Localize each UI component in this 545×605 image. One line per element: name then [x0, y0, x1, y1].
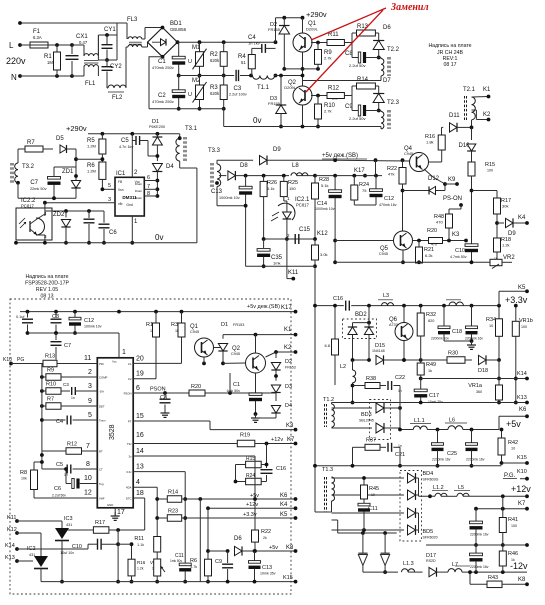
svg-text:K17: K17 [354, 168, 365, 174]
svg-text:1.8k: 1.8k [426, 140, 434, 145]
svg-text:2.2uf 50v: 2.2uf 50v [349, 116, 365, 121]
svg-text:10mk 35v: 10mk 35v [260, 572, 276, 576]
wire Q1 emitter node [302, 52, 304, 86]
svg-text:5.1k: 5.1k [321, 183, 329, 188]
svg-text:2200mk 10v: 2200mk 10v [431, 337, 449, 341]
svg-text:K2: K2 [284, 345, 292, 351]
svg-text:K3: K3 [286, 423, 294, 429]
svg-text:D4: D4 [285, 403, 292, 409]
svg-text:R11: R11 [134, 536, 144, 542]
svg-text:R37: R37 [366, 438, 376, 444]
svg-text:620k: 620k [210, 58, 220, 63]
svg-text:K3: K3 [452, 232, 460, 238]
svg-text:Vcc: Vcc [112, 360, 117, 364]
wire aux gnd1 [18, 197, 76, 199]
svg-text:R16: R16 [137, 560, 146, 565]
svg-text:C2: C2 [128, 377, 132, 381]
svg-text:+5v деж.(SB): +5v деж.(SB) [322, 153, 358, 159]
svg-text:620k: 620k [210, 91, 220, 96]
node L top wire [20, 22, 127, 24]
svg-text:FR153: FR153 [285, 366, 296, 370]
svg-text:FL3: FL3 [127, 17, 138, 23]
svg-text:C12: C12 [384, 196, 394, 202]
svg-text:R1: R1 [146, 322, 153, 328]
svg-text:1000mk 10v: 1000mk 10v [219, 196, 240, 200]
module dashed box FSP3528 [10, 299, 291, 594]
svg-text:R14: R14 [357, 77, 369, 83]
svg-text:IC3: IC3 [64, 516, 73, 522]
svg-text:CT: CT [99, 468, 103, 472]
svg-text:C13: C13 [211, 189, 223, 195]
svg-text:K15: K15 [517, 455, 527, 461]
svg-text:3528: 3528 [109, 424, 116, 440]
svg-text:Заменил: Заменил [390, 2, 429, 13]
svg-text:R38: R38 [366, 376, 376, 382]
svg-text:Надпись на плате: Надпись на плате [428, 43, 471, 49]
svg-text:K1: K1 [284, 327, 292, 333]
svg-text:2: 2 [88, 369, 92, 376]
wire fb bottom [246, 265, 315, 267]
wire module bottom rail [41, 581, 296, 583]
svg-text:DET: DET [99, 405, 105, 409]
wire mid to half-bridge [276, 75, 303, 77]
wire vcc sub [28, 332, 120, 334]
svg-text:PS-ON: PS-ON [443, 196, 462, 202]
svg-text:C3: C3 [234, 86, 242, 92]
svg-text:1n 1kv: 1n 1kv [248, 41, 260, 46]
svg-text:C6: C6 [54, 486, 61, 492]
svg-text:C945: C945 [190, 330, 199, 334]
svg-text:C16: C16 [276, 466, 286, 472]
svg-text:+5v деж.(SB): +5v деж.(SB) [247, 304, 280, 310]
svg-text:R30: R30 [448, 351, 458, 357]
svg-text:C7: C7 [64, 343, 71, 349]
svg-text:K6: K6 [280, 493, 288, 499]
svg-text:431: 431 [66, 523, 72, 527]
svg-text:C945: C945 [231, 352, 240, 356]
wire +3.3 rail [351, 305, 499, 307]
svg-text:2200mk 16v: 2200mk 16v [466, 458, 485, 462]
svg-text:08 17: 08 17 [444, 62, 457, 68]
svg-text:K5: K5 [518, 285, 526, 291]
wire mid bus [179, 75, 235, 77]
svg-text:Gnd: Gnd [126, 203, 133, 207]
wire Q5 base right [413, 240, 429, 242]
svg-text:150: 150 [289, 186, 296, 191]
pin 4 wire [133, 486, 157, 488]
svg-text:D3: D3 [285, 384, 292, 390]
svg-text:16: 16 [136, 432, 144, 439]
svg-text:K4: K4 [518, 215, 526, 221]
svg-text:Drain: Drain [135, 189, 143, 193]
svg-text:+3.3v: +3.3v [243, 512, 257, 518]
svg-text:47k: 47k [388, 172, 394, 177]
svg-text:C8: C8 [160, 395, 167, 401]
svg-text:R23: R23 [168, 509, 178, 515]
svg-text:K11: K11 [7, 515, 16, 521]
svg-text:+12v: +12v [246, 502, 258, 508]
svg-text:1N4148: 1N4148 [372, 349, 385, 353]
svg-text:C17: C17 [429, 393, 439, 399]
svg-text:T2.2: T2.2 [387, 47, 400, 53]
svg-text:+12v: +12v [271, 437, 283, 443]
svg-text:FL1: FL1 [85, 81, 96, 87]
svg-text:K15: K15 [283, 575, 293, 581]
svg-text:2200mk 16v: 2200mk 16v [470, 565, 489, 569]
svg-text:L3: L3 [383, 293, 389, 299]
svg-text:Надпись на плате: Надпись на плате [25, 274, 68, 280]
svg-text:Drain: Drain [135, 182, 143, 186]
svg-text:K13: K13 [5, 555, 15, 561]
wire HV+ bus [176, 40, 180, 44]
svg-text:R22: R22 [261, 529, 271, 535]
svg-text:1.1k: 1.1k [137, 543, 144, 547]
svg-text:RS2D: RS2D [426, 559, 436, 563]
svg-text:Vsn: Vsn [118, 188, 124, 192]
svg-text:R15: R15 [485, 162, 495, 168]
svg-text:CY1: CY1 [104, 27, 116, 33]
svg-text:D209L: D209L [306, 27, 319, 32]
svg-text:C22: C22 [395, 375, 405, 381]
svg-text:FR155: FR155 [268, 27, 281, 32]
svg-text:D11: D11 [449, 113, 460, 119]
svg-text:10: 10 [511, 447, 515, 451]
svg-text:2200mk 16v: 2200mk 16v [470, 533, 489, 537]
svg-text:4: 4 [136, 479, 140, 486]
wire minus12 diode pair [338, 532, 397, 534]
svg-text:2.2uf 50v: 2.2uf 50v [349, 63, 365, 68]
svg-text:D4: D4 [166, 164, 174, 170]
svg-text:U: U [188, 92, 192, 98]
svg-text:4.7k: 4.7k [190, 565, 197, 569]
wire module left rail [41, 364, 43, 470]
svg-text:0.1uf: 0.1uf [16, 315, 25, 319]
svg-text:Tram: Tram [99, 419, 106, 423]
svg-text:20: 20 [136, 356, 144, 363]
svg-text:K11: K11 [288, 270, 299, 276]
svg-text:C16: C16 [333, 296, 343, 302]
svg-text:30k: 30k [502, 204, 508, 209]
svg-text:VR2: VR2 [503, 255, 515, 261]
svg-text:K12: K12 [317, 231, 328, 237]
svg-text:K13: K13 [517, 395, 527, 401]
svg-text:D8: D8 [240, 163, 248, 169]
svg-text:K4: K4 [280, 502, 288, 508]
svg-text:R13: R13 [45, 354, 55, 360]
svg-text:L1.1: L1.1 [414, 418, 425, 424]
svg-text:10: 10 [489, 324, 493, 328]
wire CY right [116, 23, 118, 60]
svg-text:T3.3: T3.3 [208, 148, 221, 154]
wire module vcc rail [20, 311, 296, 313]
svg-text:3: 3 [108, 197, 111, 203]
svg-text:R32: R32 [426, 312, 436, 318]
svg-text:4.7n 1kv: 4.7n 1kv [119, 145, 133, 149]
svg-text:12: 12 [84, 490, 92, 497]
wire R5 junction [76, 158, 102, 160]
svg-text:3.0k: 3.0k [320, 252, 328, 257]
capacitor aux Ca [88, 211, 90, 218]
svg-text:D5: D5 [56, 136, 64, 142]
svg-text:PC817: PC817 [296, 203, 309, 208]
wire BD1 minus [149, 57, 163, 109]
svg-text:3.3v: 3.3v [126, 470, 132, 474]
svg-text:C1: C1 [233, 382, 240, 388]
svg-text:T1.3: T1.3 [322, 467, 333, 473]
svg-text:K17: K17 [281, 305, 292, 311]
wire pin3 node [45, 210, 104, 212]
svg-text:D6: D6 [383, 25, 391, 31]
svg-text:T2.3: T2.3 [387, 100, 400, 106]
svg-text:PG: PG [17, 357, 24, 363]
svg-text:PID: PID [99, 362, 104, 366]
svg-text:D2: D2 [285, 359, 292, 365]
svg-text:C10: C10 [455, 248, 465, 254]
svg-text:R42: R42 [508, 440, 518, 446]
svg-text:GBU856: GBU856 [170, 27, 187, 32]
svg-text:R14: R14 [168, 490, 178, 496]
svg-text:R6: R6 [190, 558, 197, 564]
svg-text:C3: C3 [63, 382, 69, 387]
svg-text:FL2: FL2 [112, 95, 123, 101]
svg-text:51: 51 [241, 60, 246, 65]
svg-text:K5: K5 [280, 512, 288, 518]
svg-text:4DA: 4DA [126, 486, 132, 490]
svg-text:2200mk 16v: 2200mk 16v [465, 337, 483, 341]
svg-text:PT: PT [128, 420, 132, 424]
svg-text:19: 19 [136, 371, 144, 378]
svg-text:K2: K2 [483, 112, 491, 118]
svg-text:13: 13 [136, 464, 144, 471]
svg-text:-12v: -12v [510, 561, 528, 571]
svg-text:6.2k: 6.2k [425, 253, 433, 258]
svg-text:K6: K6 [519, 407, 527, 413]
svg-text:R3: R3 [171, 322, 178, 328]
svg-text:R8: R8 [20, 470, 27, 476]
svg-text:5: 5 [88, 412, 92, 419]
pin 19 wire [133, 378, 156, 380]
svg-text:D9: D9 [273, 147, 281, 153]
pin 20 wire [133, 362, 181, 364]
wire minus12 line [363, 571, 398, 573]
svg-text:11: 11 [84, 355, 91, 362]
svg-text:0.47: 0.47 [79, 40, 88, 45]
svg-text:VR1a: VR1a [468, 383, 483, 389]
svg-text:1.2M: 1.2M [87, 144, 96, 149]
svg-text:K1: K1 [483, 87, 491, 93]
svg-text:7: 7 [86, 443, 90, 450]
svg-text:PSON: PSON [124, 392, 132, 396]
svg-text:1: 1 [122, 349, 126, 356]
wire long feedback vertical [314, 266, 316, 512]
svg-text:FB: FB [118, 180, 122, 184]
svg-text:R7: R7 [27, 140, 35, 146]
svg-text:K14: K14 [517, 371, 527, 377]
svg-text:C25: C25 [447, 451, 457, 457]
svg-text:75: 75 [362, 188, 367, 193]
svg-text:470mk 16v: 470mk 16v [379, 203, 397, 207]
svg-text:14: 14 [136, 448, 144, 455]
svg-text:SFR6020: SFR6020 [423, 536, 438, 540]
svg-text:L8: L8 [292, 163, 299, 169]
svg-text:R17: R17 [95, 520, 105, 526]
svg-text:R11: R11 [328, 32, 339, 38]
svg-text:100: 100 [521, 325, 527, 329]
svg-text:RT: RT [99, 450, 103, 454]
wire +5vSB rail [335, 159, 409, 162]
diode D14 down [381, 555, 390, 566]
terminal K5 right [498, 291, 500, 305]
IC FSP3528 [97, 358, 133, 508]
svg-text:0v: 0v [253, 116, 261, 125]
svg-text:9: 9 [88, 398, 92, 405]
svg-text:BD4: BD4 [423, 471, 434, 477]
svg-text:1k: 1k [511, 558, 515, 562]
red annotation line to Q1 [311, 8, 386, 40]
wire C14 R24 C12 node [335, 175, 382, 177]
svg-text:1n: 1n [71, 396, 75, 400]
svg-text:100mk 10v: 100mk 10v [84, 325, 102, 329]
svg-text:C18: C18 [452, 329, 462, 335]
svg-text:PSON: PSON [150, 387, 166, 393]
svg-text:1mk: 1mk [273, 261, 281, 266]
svg-text:C13: C13 [262, 565, 272, 571]
svg-text:2.2uf 50v: 2.2uf 50v [52, 494, 66, 498]
svg-text:820: 820 [428, 319, 434, 323]
svg-text:GND: GND [107, 503, 113, 507]
svg-text:2k: 2k [263, 536, 267, 540]
svg-text:1.2M: 1.2M [87, 169, 96, 174]
wire q2 base link [229, 373, 231, 393]
svg-text:470mk 250v: 470mk 250v [152, 99, 174, 104]
svg-text:BD2: BD2 [355, 312, 367, 318]
svg-text:220v: 220v [6, 56, 26, 66]
svg-text:P6KE200: P6KE200 [149, 125, 165, 129]
svg-text:DTC: DTC [126, 497, 132, 501]
svg-text:K7: K7 [287, 437, 295, 443]
svg-text:R7: R7 [47, 397, 54, 403]
pin 14 wire [133, 455, 255, 457]
svg-text:+5v: +5v [269, 545, 278, 551]
svg-text:C6: C6 [109, 230, 117, 236]
wire minus bus [149, 108, 224, 110]
svg-text:K8: K8 [518, 577, 526, 583]
svg-text:22mk 50v: 22mk 50v [30, 187, 47, 191]
svg-text:D6: D6 [234, 536, 242, 542]
svg-text:L2: L2 [340, 364, 346, 370]
svg-text:6.3A: 6.3A [33, 35, 42, 40]
svg-text:470: 470 [436, 220, 443, 225]
svg-text:L7: L7 [452, 562, 458, 568]
svg-text:Drain: Drain [135, 196, 143, 200]
wire R32 bottom [420, 344, 422, 360]
svg-text:100: 100 [487, 169, 493, 173]
svg-text:-DA: -DA [99, 390, 104, 394]
svg-text:L1.2: L1.2 [433, 485, 444, 491]
svg-text:K8: K8 [286, 545, 294, 551]
svg-text:470mk 250v: 470mk 250v [152, 65, 174, 70]
svg-text:1k: 1k [428, 369, 432, 373]
svg-text:T1.1: T1.1 [257, 85, 270, 91]
svg-text:VR1b: VR1b [519, 318, 533, 324]
svg-text:2.7k: 2.7k [324, 109, 332, 114]
svg-text:C7: C7 [30, 180, 38, 186]
svg-text:R45: R45 [369, 486, 379, 492]
svg-text:REV 1.05: REV 1.05 [36, 287, 58, 293]
svg-text:2200mk 16v: 2200mk 16v [432, 458, 451, 462]
svg-text:+12v: +12v [511, 484, 531, 494]
wire mid node [284, 68, 318, 70]
svg-text:C12: C12 [84, 318, 94, 324]
svg-text:ZD1: ZD1 [62, 169, 74, 175]
svg-text:SFR603G: SFR603G [423, 478, 439, 482]
svg-text:2.7k: 2.7k [324, 56, 332, 61]
svg-text:L6: L6 [449, 418, 455, 424]
svg-text:BD5: BD5 [423, 529, 434, 535]
svg-text:SBL2045: SBL2045 [359, 419, 374, 423]
svg-text:T3.1: T3.1 [185, 126, 198, 132]
red annotation line to Q2 [306, 10, 383, 92]
svg-text:R20: R20 [427, 228, 437, 234]
svg-text:08 13: 08 13 [41, 294, 54, 300]
pin 13 wire [133, 471, 185, 473]
svg-text:R9: R9 [47, 368, 54, 374]
svg-text:nfb: nfb [118, 202, 123, 206]
svg-text:D9: D9 [508, 231, 516, 237]
svg-text:R34: R34 [486, 317, 496, 323]
svg-text:R12: R12 [328, 86, 340, 92]
svg-text:L5: L5 [458, 485, 464, 491]
svg-text:Tog: Tog [99, 482, 104, 486]
svg-text:R46: R46 [508, 551, 518, 557]
svg-text:1.2k: 1.2k [502, 243, 510, 248]
wire sb gnd rail [335, 261, 490, 263]
svg-text:15: 15 [136, 413, 144, 420]
svg-text:COMP: COMP [99, 376, 108, 380]
svg-text:R43: R43 [488, 575, 498, 581]
svg-text:L1.3: L1.3 [403, 561, 414, 567]
svg-text:1M: 1M [47, 60, 53, 65]
svg-text:10: 10 [84, 475, 92, 482]
svg-text:6.8: 6.8 [324, 343, 330, 348]
svg-text:D7: D7 [383, 78, 391, 84]
pin 18 wire [133, 497, 145, 499]
svg-text:+5v: +5v [506, 419, 521, 429]
svg-text:0v: 0v [155, 233, 163, 242]
svg-text:+3.3v: +3.3v [505, 295, 528, 305]
svg-text:FSP3528-20D-17P: FSP3528-20D-17P [25, 281, 69, 287]
svg-text:D1: D1 [221, 322, 228, 328]
wire Q5 base left [335, 240, 393, 242]
svg-text:R49: R49 [426, 362, 436, 368]
svg-text:C945: C945 [379, 252, 388, 256]
svg-text:+290v: +290v [66, 124, 87, 133]
svg-text:C15: C15 [299, 227, 311, 233]
svg-text:VHF: VHF [99, 497, 105, 501]
svg-text:K7: K7 [518, 501, 526, 507]
svg-text:5.1k: 5.1k [267, 186, 275, 191]
svg-text:R20: R20 [191, 384, 201, 390]
svg-text:N: N [11, 73, 17, 82]
svg-text:4.7mk 50v: 4.7mk 50v [450, 255, 467, 259]
svg-text:+290v: +290v [306, 10, 327, 19]
svg-text:K10: K10 [517, 469, 527, 475]
svg-text:BD3: BD3 [361, 412, 372, 418]
svg-text:6: 6 [136, 385, 140, 392]
svg-text:C9: C9 [215, 559, 222, 565]
svg-text:1mk 50v: 1mk 50v [170, 559, 182, 563]
svg-text:L: L [9, 41, 14, 50]
